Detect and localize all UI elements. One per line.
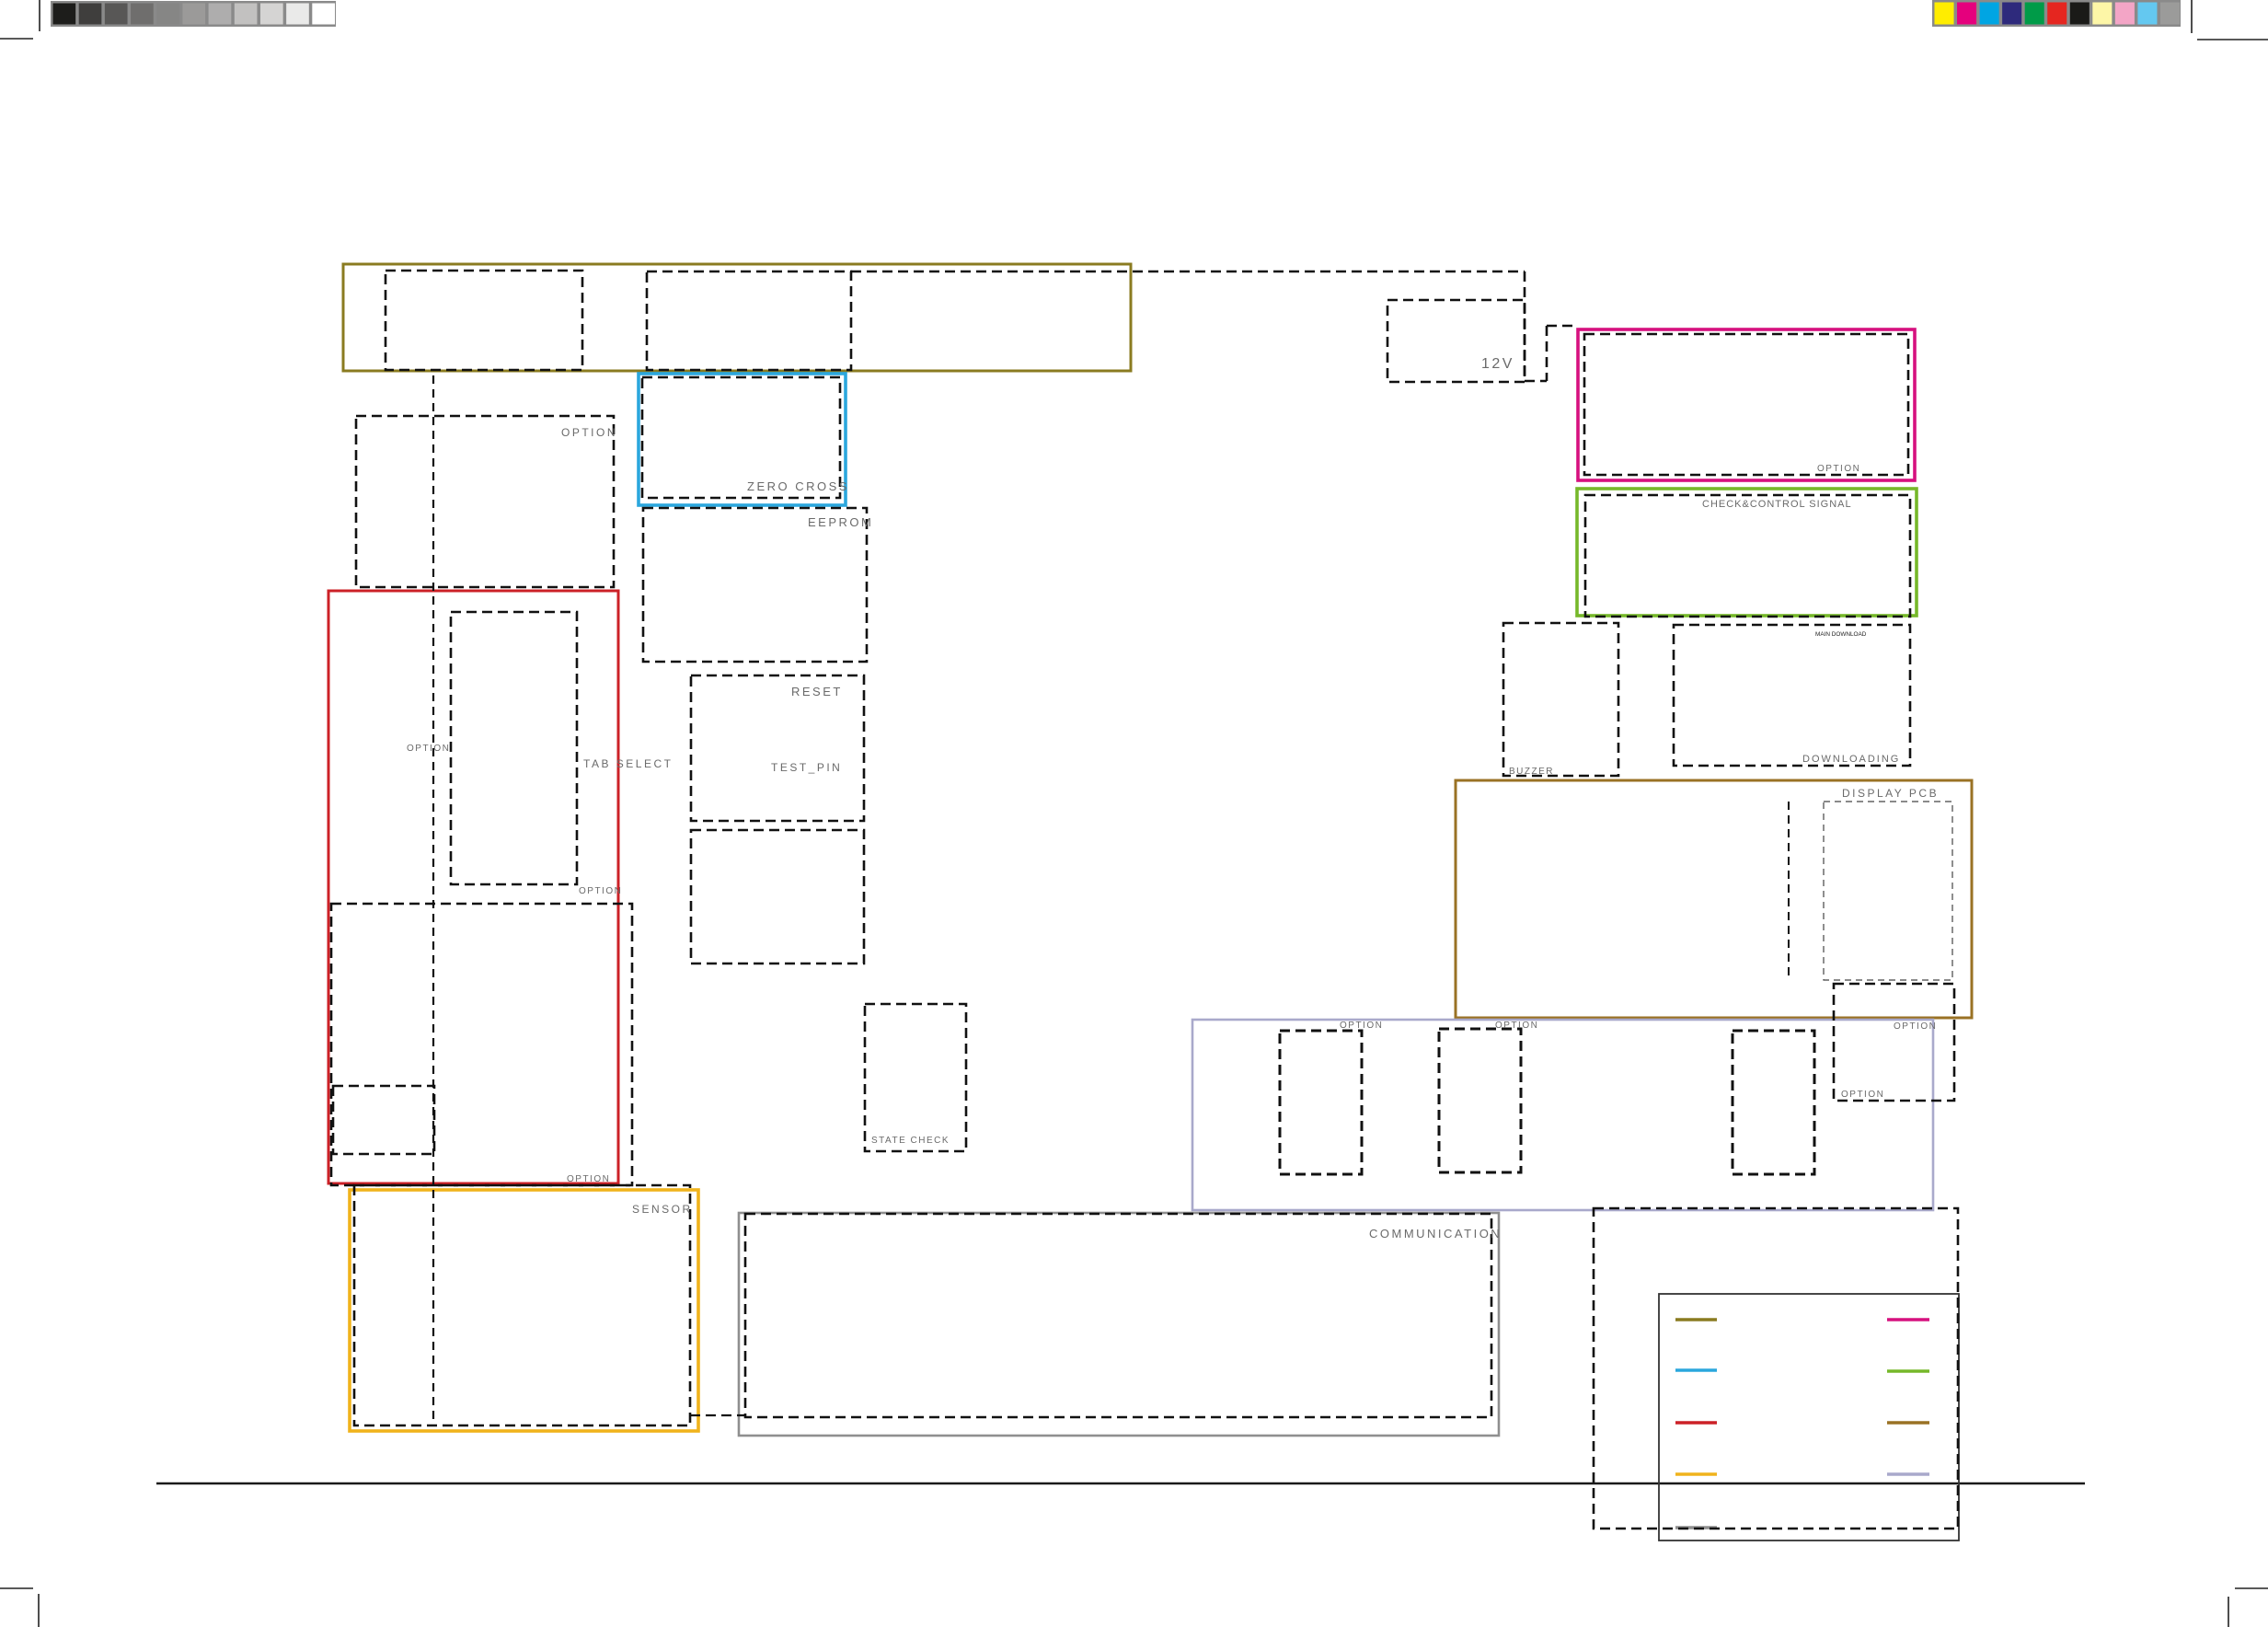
crop mark top-left [0,0,40,39]
dashed box check-control inner [1585,495,1910,617]
dashed box buzzer [1503,623,1618,776]
dashed box 12V supply [1387,300,1525,382]
svg-text:RESET: RESET [791,685,843,698]
dashed line power top [851,271,1525,273]
color calibration strip [1932,0,2181,27]
dashed box display inner [1824,802,1952,980]
dashed box transformer [647,271,851,370]
svg-text:OPTION: OPTION [1894,1021,1937,1032]
svg-text:SENSOR: SENSOR [632,1203,693,1216]
power section box (olive) [343,264,1131,371]
svg-text:ZERO CROSS: ZERO CROSS [747,479,849,493]
dashed box communication [745,1214,1491,1417]
dashed box zero cross inner [642,377,840,498]
svg-text:OPTION: OPTION [1340,1021,1383,1031]
dashed box ssr fan option [331,904,632,1185]
grayscale calibration strip [51,1,336,27]
legend line cyan [1675,1368,1717,1371]
svg-text:STATE CHECK: STATE CHECK [871,1136,950,1146]
legend line olive [1675,1318,1717,1321]
dashed box remote option [1594,1208,1958,1529]
dashed box reset [691,675,864,821]
svg-text:CHECK&CONTROL SIGNAL: CHECK&CONTROL SIGNAL [1702,499,1852,510]
legend line gray [1675,1526,1717,1529]
dashed box cn76 option [1834,984,1954,1101]
dashed box fan motor [333,1086,434,1154]
svg-text:MAIN DOWNLOAD: MAIN DOWNLOAD [1815,631,1867,638]
legend line green [1887,1369,1929,1372]
legend line dark gold [1887,1421,1929,1424]
bottom rule [156,1483,2085,1485]
svg-text:OPTION: OPTION [1495,1021,1538,1031]
dashed link to eev box [1525,326,1578,381]
dashed line power right [1524,271,1526,381]
dashed board boundary display [1788,802,1790,975]
svg-text:EEPROM: EEPROM [808,515,873,529]
legend line magenta [1887,1318,1929,1321]
svg-text:TEST_PIN: TEST_PIN [771,761,842,774]
legend line yellow [1675,1472,1717,1475]
dashed board boundary line [432,375,434,1185]
sensor section box (yellow) [350,1190,698,1431]
dashed box main10 [1280,1031,1362,1174]
eev option box (magenta) [1578,329,1915,480]
svg-text:COMMUNICATION: COMMUNICATION [1369,1227,1502,1240]
svg-text:TAB SELECT: TAB SELECT [583,757,673,770]
dashed box dip right [1733,1031,1814,1174]
svg-text:OPTION: OPTION [561,426,617,439]
svg-text:BUZZER: BUZZER [1509,767,1554,777]
svg-text:DOWNLOADING: DOWNLOADING [1802,754,1900,765]
dashed box eev inner [1584,334,1908,475]
svg-text:OPTION: OPTION [567,1174,610,1184]
crop mark bottom-left [0,1588,39,1627]
svg-text:OPTION: OPTION [1817,464,1860,474]
dashed link sensor-comm [690,1414,745,1416]
svg-text:OPTION: OPTION [1841,1090,1884,1100]
svg-text:OPTION: OPTION [407,744,450,754]
communication box (gray) [739,1213,1499,1436]
dashed box tab select [451,612,577,884]
legend box [1659,1294,1959,1540]
crop mark top-right [2192,0,2268,40]
svg-text:12V: 12V [1481,356,1514,372]
dashed box downloading [1674,625,1910,766]
display pcb box (brown) [1456,780,1972,1018]
check-control box (green) [1577,489,1917,616]
svg-text:OPTION: OPTION [579,886,622,896]
dashed box sensor inner [354,1185,690,1425]
dashed box state check [865,1004,966,1151]
zero cross box (cyan) [639,374,846,505]
legend line lavender [1887,1472,1929,1475]
dashed box power input filter [386,271,582,370]
dashed box rmc1 [1439,1029,1521,1172]
legend line red [1675,1421,1717,1424]
dashed box option relays [356,416,614,587]
dashed board boundary sensor [432,1190,434,1425]
dipswitch option box (lavender) [1192,1020,1933,1210]
motor section box (red) [328,591,618,1183]
svg-text:DISPLAY PCB: DISPLAY PCB [1842,787,1939,800]
dashed box test pin [691,830,864,964]
dashed box eeprom [643,508,867,662]
crop mark bottom-right [2228,1588,2268,1627]
